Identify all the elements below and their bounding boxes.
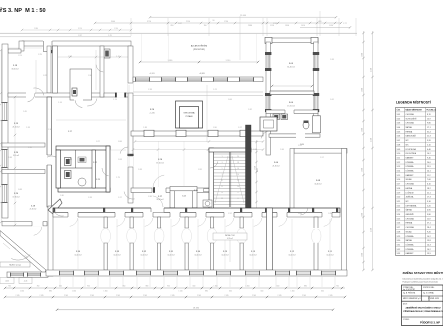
svg-text:2 545: 2 545 bbox=[64, 295, 68, 297]
svg-text:3.33: 3.33 bbox=[253, 149, 257, 151]
svg-text:2 545: 2 545 bbox=[302, 295, 306, 297]
svg-text:11,9: 11,9 bbox=[427, 218, 431, 220]
svg-text:3.31: 3.31 bbox=[397, 244, 401, 246]
wall v x48 low bbox=[48, 206, 53, 276]
svg-text:3,80: 3,80 bbox=[427, 214, 431, 216]
left edge dim chain bbox=[0, 49, 2, 223]
hall label 2 bbox=[156, 159, 164, 164]
svg-text:28 430: 28 430 bbox=[193, 308, 199, 310]
svg-text:SKLAD: SKLAD bbox=[406, 230, 413, 233]
svg-text:1 450: 1 450 bbox=[246, 286, 250, 288]
svg-text:1.15: 1.15 bbox=[28, 147, 32, 149]
svg-text:1.83: 1.83 bbox=[330, 59, 334, 61]
svg-text:2 545: 2 545 bbox=[329, 295, 333, 297]
svg-text:880: 880 bbox=[49, 290, 52, 292]
svg-text:ALTÁN STŘEŠNÍ: ALTÁN STŘEŠNÍ bbox=[191, 45, 208, 48]
svg-text:±0,00: ±0,00 bbox=[5, 281, 9, 283]
svg-text:UČEBNA: UČEBNA bbox=[406, 161, 415, 164]
small room upper-left bbox=[70, 69, 92, 108]
svg-text:LEGENDA MÍSTNOSTÍ: LEGENDA MÍSTNOSTÍ bbox=[396, 100, 431, 105]
partition x314 bbox=[312, 217, 321, 270]
hall west wall gaps bbox=[127, 83, 133, 167]
outer wall left bbox=[2, 44, 8, 218]
terrace label bbox=[149, 45, 207, 76]
mid bottom dim bbox=[213, 233, 247, 262]
left room labels bbox=[11, 65, 99, 211]
svg-text:17,3: 17,3 bbox=[427, 197, 431, 199]
svg-text:2.16: 2.16 bbox=[48, 129, 52, 131]
hall label bbox=[149, 109, 155, 114]
wall v x100 bbox=[100, 46, 104, 97]
wing room 3.05 label bbox=[287, 63, 295, 68]
svg-text:3.33: 3.33 bbox=[397, 253, 401, 255]
svg-text:9,20: 9,20 bbox=[427, 231, 431, 233]
top extension lines bbox=[131, 18, 356, 36]
svg-text:UČEBNA: UČEBNA bbox=[406, 248, 415, 251]
toilet 2 bbox=[65, 171, 72, 179]
svg-text:UČEBNA: UČEBNA bbox=[406, 165, 415, 168]
svg-text:25 640: 25 640 bbox=[240, 15, 246, 17]
svg-text:10,2: 10,2 bbox=[427, 153, 431, 155]
svg-text:1 450: 1 450 bbox=[20, 290, 24, 292]
corridor lower wall bbox=[53, 212, 340, 226]
svg-text:23,9: 23,9 bbox=[427, 166, 431, 168]
svg-text:13: 13 bbox=[221, 192, 223, 194]
svg-text:1 450: 1 450 bbox=[291, 290, 295, 292]
svg-text:3.18: 3.18 bbox=[397, 188, 401, 190]
svg-text:600: 600 bbox=[261, 290, 264, 292]
svg-text:2 545: 2 545 bbox=[225, 295, 229, 297]
svg-text:1.79: 1.79 bbox=[116, 177, 120, 179]
svg-text:KABINET: KABINET bbox=[406, 252, 415, 255]
svg-text:1.14: 1.14 bbox=[58, 102, 62, 104]
svg-text:KANCELÁŘ: KANCELÁŘ bbox=[406, 135, 417, 138]
svg-text:VÝTAHU: VÝTAHU bbox=[185, 115, 193, 118]
svg-text:3 120: 3 120 bbox=[78, 28, 82, 30]
svg-text:2 880: 2 880 bbox=[34, 28, 38, 30]
pillar row bbox=[131, 130, 263, 136]
svg-text:3.27: 3.27 bbox=[397, 227, 401, 229]
svg-text:5,20: 5,20 bbox=[427, 205, 431, 207]
bottom outer wall bbox=[46, 270, 347, 276]
hall dim line y141 bbox=[134, 140, 264, 142]
window extension lines bbox=[60, 277, 335, 287]
svg-text:Půdorysné zaměření pouze hlavn: Půdorysné zaměření pouze hlavních konstr… bbox=[403, 281, 439, 284]
stair side dim chain bbox=[254, 140, 257, 208]
svg-text:28,4: 28,4 bbox=[427, 227, 431, 229]
svg-text:3.28: 3.28 bbox=[397, 231, 401, 233]
svg-text:1 480: 1 480 bbox=[361, 253, 363, 257]
wall h left-mid2 bbox=[2, 143, 45, 147]
cluster door arc bbox=[102, 168, 109, 176]
svg-text:9,80: 9,80 bbox=[427, 123, 431, 125]
diagonal wall bbox=[0, 231, 46, 275]
svg-text:KOUPELNA: KOUPELNA bbox=[406, 148, 417, 151]
svg-text:5,10: 5,10 bbox=[427, 144, 431, 146]
svg-text:2.63: 2.63 bbox=[118, 159, 122, 161]
svg-text:600: 600 bbox=[193, 286, 196, 288]
svg-text:1.84: 1.84 bbox=[280, 149, 284, 151]
svg-text:2.48: 2.48 bbox=[8, 157, 12, 159]
svg-text:2.29: 2.29 bbox=[38, 54, 42, 56]
svg-text:1 480: 1 480 bbox=[361, 213, 363, 217]
svg-text:1.74: 1.74 bbox=[113, 99, 117, 101]
svg-text:3.07: 3.07 bbox=[397, 140, 401, 142]
svg-text:760: 760 bbox=[204, 25, 207, 27]
svg-text:760: 760 bbox=[8, 286, 11, 288]
block 3.08 top wall bbox=[294, 149, 347, 154]
svg-text:3.21: 3.21 bbox=[397, 201, 401, 203]
svg-text:3.22: 3.22 bbox=[43, 75, 47, 77]
svg-text:24,6: 24,6 bbox=[427, 162, 431, 164]
svg-text:3.15: 3.15 bbox=[397, 175, 401, 177]
svg-text:3 640: 3 640 bbox=[111, 21, 115, 23]
svg-text:1 480: 1 480 bbox=[361, 88, 363, 92]
hall dim y149 bbox=[132, 148, 264, 150]
svg-text:3.26: 3.26 bbox=[397, 223, 401, 225]
svg-text:3.07: 3.07 bbox=[257, 168, 259, 172]
sink room bbox=[78, 157, 86, 186]
svg-text:HERNA: HERNA bbox=[406, 222, 413, 225]
svg-text:2 545: 2 545 bbox=[252, 295, 256, 297]
svg-text:10: 10 bbox=[237, 186, 239, 188]
corridor main wall bbox=[53, 196, 340, 213]
shaft block bbox=[104, 49, 110, 58]
wing left wall bbox=[266, 42, 270, 155]
room 3.08 label bbox=[314, 180, 321, 185]
svg-text:950: 950 bbox=[123, 286, 126, 288]
svg-text:3.18: 3.18 bbox=[88, 197, 92, 199]
svg-text:1 800: 1 800 bbox=[285, 25, 289, 27]
svg-text:18,2: 18,2 bbox=[427, 188, 431, 190]
svg-text:3.14: 3.14 bbox=[397, 171, 401, 173]
staircase bbox=[203, 125, 251, 210]
svg-text:2.77: 2.77 bbox=[343, 23, 347, 25]
svg-text:(PROSTOR): (PROSTOR) bbox=[193, 49, 205, 51]
svg-text:3.91: 3.91 bbox=[298, 145, 302, 147]
door gap x44 bbox=[47, 155, 60, 165]
svg-text:2.87: 2.87 bbox=[78, 35, 82, 37]
svg-text:1 480: 1 480 bbox=[361, 168, 363, 172]
svg-text:3.84: 3.84 bbox=[118, 141, 122, 143]
terrace dim line bbox=[139, 33, 259, 63]
svg-text:5 230: 5 230 bbox=[370, 228, 372, 232]
svg-text:21,10 m2: 21,10 m2 bbox=[12, 126, 19, 128]
svg-text:9,40: 9,40 bbox=[427, 157, 431, 159]
svg-text:3.17: 3.17 bbox=[118, 197, 122, 199]
svg-text:Dokumentace skutečného provede: Dokumentace skutečného provedení stavby … bbox=[403, 278, 443, 281]
svg-text:3.12: 3.12 bbox=[397, 162, 401, 164]
svg-text:3 750: 3 750 bbox=[147, 21, 151, 23]
wall h left-mid bbox=[2, 170, 45, 174]
svg-text:31,40 m2: 31,40 m2 bbox=[287, 66, 295, 68]
svg-text:9,15 m2: 9,15 m2 bbox=[13, 155, 19, 157]
hall bottom wall bbox=[131, 175, 211, 193]
svg-text:3.01: 3.01 bbox=[397, 114, 401, 116]
svg-text:3.09: 3.09 bbox=[397, 149, 401, 151]
terrace windows bbox=[135, 77, 254, 81]
block 3.08 left wall bbox=[290, 149, 294, 211]
svg-text:3.27: 3.27 bbox=[96, 141, 100, 143]
svg-text:21,3: 21,3 bbox=[427, 136, 431, 138]
svg-text:ŠATNA: ŠATNA bbox=[406, 209, 413, 212]
wall h left-low bbox=[2, 221, 47, 235]
svg-text:3.25: 3.25 bbox=[397, 218, 401, 220]
svg-text:8,70: 8,70 bbox=[427, 114, 431, 116]
svg-text:3.30: 3.30 bbox=[397, 240, 401, 242]
room centerlines bbox=[78, 219, 330, 269]
svg-text:1.82: 1.82 bbox=[248, 109, 252, 111]
bottom room partitions bbox=[101, 217, 247, 270]
svg-text:3.67: 3.67 bbox=[178, 23, 182, 25]
svg-text:LOŽNICE: LOŽNICE bbox=[406, 191, 415, 194]
svg-text:1 480: 1 480 bbox=[361, 53, 363, 57]
svg-text:950: 950 bbox=[87, 286, 90, 288]
diagonal door arc bbox=[11, 254, 30, 260]
svg-text:760: 760 bbox=[336, 286, 339, 288]
wing windows bbox=[265, 52, 319, 112]
svg-text:3.24: 3.24 bbox=[397, 214, 401, 216]
svg-text:STROJOVNA: STROJOVNA bbox=[184, 112, 196, 115]
svg-text:1.25: 1.25 bbox=[108, 35, 112, 37]
wall v x47 bbox=[47, 97, 52, 207]
svg-text:3.64: 3.64 bbox=[228, 99, 232, 101]
svg-text:600: 600 bbox=[277, 286, 280, 288]
svg-text:14,3: 14,3 bbox=[427, 244, 431, 246]
svg-text:3,10: 3,10 bbox=[427, 201, 431, 203]
svg-text:2.18: 2.18 bbox=[148, 89, 152, 91]
room 3.06 label bbox=[257, 162, 280, 172]
svg-text:CHODBA: CHODBA bbox=[406, 183, 415, 186]
svg-text:1 210: 1 210 bbox=[179, 290, 183, 292]
roof overhang line bbox=[0, 33, 357, 37]
outer wall top-left bbox=[22, 41, 131, 46]
svg-text:3.16: 3.16 bbox=[397, 179, 401, 181]
svg-text:KABINET: KABINET bbox=[406, 174, 415, 177]
svg-text:31,4: 31,4 bbox=[427, 131, 431, 133]
svg-text:880: 880 bbox=[146, 286, 149, 288]
svg-text:18,25 m2: 18,25 m2 bbox=[11, 68, 18, 70]
svg-text:6,10: 6,10 bbox=[427, 184, 431, 186]
svg-text:3.08: 3.08 bbox=[397, 144, 401, 146]
svg-text:2.81: 2.81 bbox=[198, 169, 202, 171]
title block bbox=[402, 270, 443, 326]
svg-text:3.41: 3.41 bbox=[330, 99, 334, 101]
svg-text:17,25 m2: 17,25 m2 bbox=[287, 105, 295, 107]
svg-text:ŠATNA: ŠATNA bbox=[406, 239, 413, 242]
svg-text:57,10 m2: 57,10 m2 bbox=[156, 162, 164, 164]
svg-text:3.03: 3.03 bbox=[397, 123, 401, 125]
title text bbox=[0, 7, 46, 14]
svg-text:1 450: 1 450 bbox=[72, 290, 76, 292]
svg-text:3.23: 3.23 bbox=[96, 179, 100, 181]
svg-text:17,35 m2: 17,35 m2 bbox=[12, 196, 19, 198]
svg-text:6,40: 6,40 bbox=[427, 149, 431, 151]
room 3.25 label bbox=[194, 190, 198, 192]
toilet 1 bbox=[65, 158, 72, 166]
svg-text:2 545: 2 545 bbox=[90, 295, 94, 297]
hall line y95 bbox=[133, 92, 263, 96]
top-left corner jog bbox=[8, 41, 24, 53]
svg-text:2 545: 2 545 bbox=[143, 295, 147, 297]
bottom-left label box bbox=[0, 262, 30, 267]
corridor label bbox=[156, 196, 163, 201]
svg-text:UČEBNA: UČEBNA bbox=[406, 170, 415, 173]
svg-text:950: 950 bbox=[167, 286, 170, 288]
right outer wall low bbox=[342, 149, 347, 276]
svg-text:3.04: 3.04 bbox=[397, 127, 401, 129]
svg-text:600: 600 bbox=[321, 290, 324, 292]
svg-text:4,95 m2: 4,95 m2 bbox=[227, 238, 233, 240]
svg-text:UMYVÁRNA: UMYVÁRNA bbox=[406, 204, 417, 207]
svg-text:12: 12 bbox=[237, 180, 239, 182]
svg-text:PŘÍSPRAVA ŠKOLKY, FRÁNI ŠRÁMKA: PŘÍSPRAVA ŠKOLKY, FRÁNI ŠRÁMKA 21 bbox=[403, 310, 443, 313]
door arcs bbox=[33, 65, 308, 216]
svg-text:1.83: 1.83 bbox=[138, 169, 142, 171]
upper dim line y57 bbox=[58, 56, 128, 58]
svg-text:20: 20 bbox=[237, 156, 239, 158]
svg-text:3.11: 3.11 bbox=[397, 157, 401, 159]
svg-text:21,1: 21,1 bbox=[427, 192, 431, 194]
svg-text:1.19: 1.19 bbox=[116, 56, 120, 58]
bold wall x267 bbox=[267, 208, 273, 270]
svg-text:ZMĚNA STAVBY PRO MĚSTSKOU Č. 2: ZMĚNA STAVBY PRO MĚSTSKOU Č. 2 bbox=[403, 270, 443, 275]
right vertical dim chains bbox=[14, 11, 374, 271]
svg-text:UČEBNA: UČEBNA bbox=[406, 243, 415, 246]
svg-text:3.22: 3.22 bbox=[93, 162, 97, 164]
svg-text:13,9: 13,9 bbox=[427, 253, 431, 255]
svg-text:5 910: 5 910 bbox=[226, 60, 231, 62]
svg-text:1 450: 1 450 bbox=[214, 286, 218, 288]
svg-text:UČEBNA: UČEBNA bbox=[406, 235, 415, 238]
svg-text:600: 600 bbox=[59, 286, 62, 288]
svg-text:3.22: 3.22 bbox=[397, 205, 401, 207]
svg-text:600: 600 bbox=[229, 290, 232, 292]
svg-text:3.19: 3.19 bbox=[397, 192, 401, 194]
svg-text:810: 810 bbox=[171, 25, 174, 27]
svg-text:17,1: 17,1 bbox=[427, 127, 431, 129]
bottom-left small wall bbox=[7, 272, 48, 277]
svg-text:1.21: 1.21 bbox=[213, 89, 217, 91]
legend table bbox=[396, 100, 437, 256]
svg-text:3.06: 3.06 bbox=[397, 136, 401, 138]
wing second wall bbox=[269, 133, 320, 137]
svg-text:3.25: 3.25 bbox=[194, 190, 198, 192]
svg-text:14,2: 14,2 bbox=[427, 249, 431, 251]
svg-text:2 880: 2 880 bbox=[248, 25, 252, 27]
bath cluster outline bbox=[56, 146, 110, 192]
small shaft box bbox=[260, 117, 277, 131]
svg-text:24,1: 24,1 bbox=[427, 171, 431, 173]
svg-text:90: 90 bbox=[213, 20, 215, 22]
svg-text:1 120: 1 120 bbox=[18, 55, 22, 57]
svg-text:2 545: 2 545 bbox=[116, 295, 120, 297]
wall v x53 bbox=[53, 46, 58, 93]
room 3.24 box bbox=[170, 187, 197, 208]
svg-text:15,9: 15,9 bbox=[427, 118, 431, 120]
small annotation texts bbox=[8, 23, 347, 215]
wall v x47 bbox=[47, 46, 51, 93]
svg-text:11: 11 bbox=[221, 186, 223, 188]
bottom dimension chains bbox=[0, 278, 346, 312]
svg-text:3.64: 3.64 bbox=[298, 213, 302, 215]
svg-text:1 010: 1 010 bbox=[329, 25, 333, 27]
svg-text:760: 760 bbox=[37, 286, 40, 288]
svg-text:3.17: 3.17 bbox=[68, 131, 72, 133]
svg-text:3.17: 3.17 bbox=[397, 184, 401, 186]
svg-text:1 480: 1 480 bbox=[361, 128, 363, 132]
svg-text:-0,45: -0,45 bbox=[24, 281, 28, 283]
svg-text:1.65: 1.65 bbox=[23, 111, 27, 113]
svg-text:+5,430: +5,430 bbox=[149, 112, 155, 114]
svg-text:KABINET: KABINET bbox=[406, 156, 415, 159]
svg-text:28,40 m2: 28,40 m2 bbox=[156, 199, 163, 201]
wing room divider bbox=[270, 91, 314, 95]
svg-text:3.24: 3.24 bbox=[182, 196, 186, 198]
svg-text:21,35 m2: 21,35 m2 bbox=[272, 165, 279, 167]
svg-text:SKLAD: SKLAD bbox=[406, 178, 413, 181]
svg-text:+8,105: +8,105 bbox=[199, 73, 205, 75]
svg-text:16,40 m2: 16,40 m2 bbox=[314, 183, 321, 185]
svg-text:5 230: 5 230 bbox=[370, 138, 372, 142]
svg-text:1 410: 1 410 bbox=[301, 25, 305, 27]
wing dim line bbox=[271, 85, 313, 87]
svg-text:2 545: 2 545 bbox=[278, 295, 282, 297]
svg-text:CHODBA: CHODBA bbox=[406, 217, 415, 220]
svg-text:16: 16 bbox=[237, 168, 239, 170]
svg-text:1.38: 1.38 bbox=[143, 127, 147, 129]
svg-text:3,20: 3,20 bbox=[427, 140, 431, 142]
top dimension chain bbox=[94, 15, 342, 27]
svg-text:2 510: 2 510 bbox=[186, 21, 190, 23]
svg-text:880: 880 bbox=[304, 286, 307, 288]
svg-text:3.13: 3.13 bbox=[397, 166, 401, 168]
wing right pillar bbox=[313, 116, 321, 133]
svg-text:2.84: 2.84 bbox=[88, 75, 92, 77]
svg-text:NÁZEV MÍSTNOSTI: NÁZEV MÍSTNOSTI bbox=[406, 109, 423, 112]
svg-text:Č.M.: Č.M. bbox=[397, 109, 401, 112]
svg-text:14,2: 14,2 bbox=[427, 236, 431, 238]
svg-text:4,90: 4,90 bbox=[427, 210, 431, 212]
svg-text:ŠATNA: ŠATNA bbox=[406, 126, 413, 129]
svg-text:JIDĚLNA: JIDĚLNA bbox=[406, 196, 415, 199]
svg-text:3.17: 3.17 bbox=[238, 127, 242, 129]
svg-text:3.36: 3.36 bbox=[148, 196, 152, 198]
svg-text:ZAMĚŘENÍ SKUTEČNÉHO STAVU: ZAMĚŘENÍ SKUTEČNÉHO STAVU bbox=[405, 307, 440, 310]
svg-text:3.21: 3.21 bbox=[68, 159, 72, 161]
svg-text:2.97: 2.97 bbox=[228, 213, 232, 215]
elevator room bbox=[176, 101, 203, 128]
svg-text:1 760: 1 760 bbox=[224, 21, 228, 23]
svg-text:2.69: 2.69 bbox=[328, 213, 332, 215]
wing room 3.04 label bbox=[287, 102, 295, 107]
svg-text:CHODBA: CHODBA bbox=[406, 226, 415, 229]
svg-text:3.29: 3.29 bbox=[397, 236, 401, 238]
svg-text:1 450: 1 450 bbox=[104, 290, 108, 292]
svg-text:5 230: 5 230 bbox=[370, 68, 372, 72]
svg-text:ZÁDVEŘÍ: ZÁDVEŘÍ bbox=[406, 213, 415, 216]
svg-text:3.68: 3.68 bbox=[18, 189, 22, 191]
wing right wall bbox=[314, 42, 318, 116]
hall west wall bbox=[128, 46, 133, 203]
left wall windows bbox=[1, 102, 7, 203]
svg-text:ÝS 3. NP M 1 : 50: ÝS 3. NP M 1 : 50 bbox=[0, 7, 46, 14]
hall interior dims bbox=[158, 141, 184, 187]
svg-text:21,30 m2: 21,30 m2 bbox=[30, 209, 37, 211]
svg-text:2.53: 2.53 bbox=[273, 23, 277, 25]
svg-text:1 950: 1 950 bbox=[114, 28, 118, 30]
svg-text:3.23: 3.23 bbox=[397, 210, 401, 212]
